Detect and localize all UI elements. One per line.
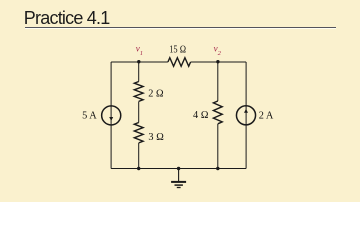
svg-text:3 Ω: 3 Ω (148, 132, 164, 143)
wire left rail (110, 62, 112, 169)
svg-text:4 Ω: 4 Ω (193, 110, 209, 121)
svg-text:2 Ω: 2 Ω (148, 88, 164, 99)
wire v2 rail (217, 62, 219, 169)
wire bottom (111, 168, 246, 170)
wire v1 rail (138, 62, 140, 169)
ground symbol (171, 169, 186, 188)
bottom junction dot v1 rail (137, 167, 140, 170)
svg-text:5 A: 5 A (82, 110, 97, 121)
current source I1 5A circle (102, 106, 121, 125)
bottom junction dot ground (177, 167, 180, 170)
node v1 junction dot (137, 60, 140, 63)
svg-text:v1: v1 (136, 43, 143, 57)
svg-text:2 A: 2 A (259, 110, 274, 121)
svg-text:v2: v2 (214, 43, 222, 57)
svg-text:15 Ω: 15 Ω (169, 45, 186, 56)
bottom junction dot v2 rail (216, 167, 219, 170)
resistor R3 3ohm (134, 123, 143, 143)
wire top-left: node v1 to top-left corner (111, 61, 168, 63)
resistor R2 2ohm (134, 82, 143, 102)
wire top: 15ohm right lead to v2 and corner (191, 61, 247, 63)
current source I2 arrow (up) (244, 109, 248, 113)
resistor R1 15ohm (168, 58, 191, 67)
title separator rule (25, 27, 336, 29)
resistor R4 4ohm (213, 101, 222, 124)
wire right rail (245, 62, 247, 169)
slide title (24, 8, 110, 29)
current source I2 2A circle (236, 106, 255, 125)
node v2 junction dot (216, 60, 219, 63)
current source I1 arrow (down) (109, 117, 113, 121)
